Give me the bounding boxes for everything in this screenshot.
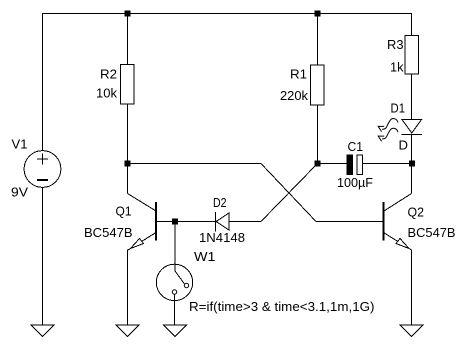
- wire left rail horizontal: [128, 163, 262, 165]
- wire D2 anode right: [229, 221, 261, 223]
- voltage source V1 plus sign: [37, 158, 48, 160]
- svg-text:10k: 10k: [96, 86, 117, 101]
- svg-text:9V: 9V: [11, 185, 28, 200]
- switch W1 lever: [175, 271, 185, 284]
- resistor R3 body: [405, 36, 419, 75]
- svg-text:R2: R2: [100, 67, 117, 82]
- switch W1 body circle: [156, 264, 192, 300]
- wire Q1 emitter to ground: [127, 250, 129, 326]
- ground (Q1 emitter): [116, 325, 139, 337]
- wire Q2 collector diagonal: [384, 194, 412, 212]
- transistor Q2 emitter arrow: [396, 239, 409, 249]
- capacitor C1 plate - (outline): [357, 155, 363, 175]
- LED D1 light arrow upper head: [378, 126, 384, 131]
- wire C1 right: [363, 163, 410, 165]
- transistor Q1 emitter arrow: [131, 239, 144, 249]
- node junction left rail (R2/Q1 collector): [125, 161, 130, 166]
- svg-text:D1: D1: [391, 101, 406, 116]
- svg-text:R3: R3: [387, 37, 404, 52]
- node junction mid (R1/C1/D2): [315, 161, 320, 166]
- LED D1 light arrow lower shaft: [382, 128, 398, 139]
- diode D1 (LED) triangle: [402, 120, 422, 134]
- svg-text:R1: R1: [290, 67, 307, 82]
- svg-text:BC547B: BC547B: [408, 225, 456, 240]
- svg-text:W1: W1: [194, 249, 216, 264]
- wire cross diagonal from D2 to mid node: [261, 164, 318, 222]
- transistor Q1 base bar: [155, 202, 157, 241]
- transistor Q2 emitter diagonal: [384, 233, 412, 251]
- svg-text:D2: D2: [213, 195, 227, 210]
- wire W1 bottom to ground: [174, 294, 176, 325]
- svg-text:BC547B: BC547B: [84, 225, 133, 240]
- node junction right (C1/D1/Q2 collector): [410, 161, 415, 166]
- wire V1 bottom to ground: [42, 187, 44, 325]
- diode D1 cathode bar: [402, 134, 423, 136]
- svg-text:Q1: Q1: [116, 204, 132, 219]
- resistor R1 body: [311, 65, 325, 105]
- capacitor C1 plate + (filled): [347, 155, 353, 175]
- wire R1 bottom to node: [317, 105, 319, 164]
- svg-text:1N4148: 1N4148: [199, 230, 245, 245]
- wire R2 bottom to node: [127, 104, 129, 164]
- svg-text:100µF: 100µF: [337, 175, 373, 190]
- switch W1 contact bottom: [172, 290, 176, 294]
- LED D1 light arrow upper shaft: [382, 119, 398, 130]
- wire Q1 base to D2: [156, 221, 216, 223]
- diode D2 triangle: [216, 213, 229, 230]
- wire top rail: [42, 13, 412, 15]
- resistor R2 body: [121, 65, 135, 105]
- node junction top-left (R2 tap): [125, 11, 130, 16]
- wire Q1 collector vertical: [127, 164, 129, 194]
- node junction top-right (R1 tap): [315, 11, 320, 16]
- wire right drop to R3: [411, 13, 413, 36]
- wire Q2 collector vertical: [411, 166, 413, 194]
- ground (Q2 emitter): [400, 325, 423, 337]
- transistor Q2 base bar: [383, 202, 385, 241]
- svg-text:C1: C1: [348, 139, 364, 154]
- ground (W1): [164, 325, 187, 337]
- wire R3 bottom to D1: [411, 74, 413, 120]
- svg-text:D: D: [399, 138, 409, 153]
- wire Q2 emitter to ground: [411, 250, 413, 326]
- voltage source V1 minus sign: [37, 179, 48, 181]
- switch W1 contact right: [184, 283, 188, 287]
- node junction W1 tap: [173, 219, 178, 224]
- svg-text:Q2: Q2: [408, 205, 425, 220]
- diode D2 cathode bar: [215, 212, 217, 232]
- transistor Q1 emitter diagonal: [128, 233, 156, 251]
- svg-text:R=if(time>3 & time<3.1,1m,1G): R=if(time>3 & time<3.1,1m,1G): [189, 299, 375, 314]
- wire R2 top: [127, 13, 129, 65]
- svg-text:220k: 220k: [280, 88, 308, 103]
- wire left vertical (V+ rail to V1): [42, 13, 44, 151]
- wire Q1 collector diagonal: [128, 194, 157, 212]
- LED D1 light arrow lower head: [378, 136, 384, 141]
- wire D1 to node: [411, 135, 413, 162]
- wire W1 top: [174, 222, 176, 272]
- wire cross diagonal to Q2 base: [261, 164, 316, 222]
- voltage source V1 circle: [24, 151, 61, 188]
- ground (V1): [31, 325, 54, 337]
- wire R1 top: [317, 13, 319, 65]
- wire C1 left: [318, 163, 348, 165]
- svg-text:1k: 1k: [390, 60, 404, 75]
- wire Q2 base horizontal: [316, 221, 384, 223]
- svg-text:V1: V1: [12, 137, 28, 152]
